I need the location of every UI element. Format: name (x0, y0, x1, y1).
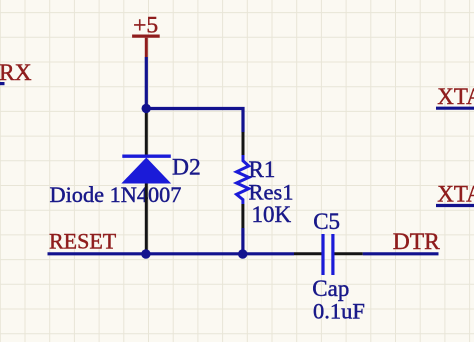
junction node B (diode/RESET) (141, 249, 150, 258)
svg-text:0.1uF: 0.1uF (313, 298, 365, 323)
svg-text:RESET: RESET (49, 228, 117, 253)
svg-text:D2: D2 (172, 154, 201, 180)
junction node C (R1/RESET) (238, 249, 247, 258)
junction node A (+5/XTAL wire tee) (142, 104, 151, 113)
power +5 (132, 12, 160, 57)
svg-text:RX: RX (0, 60, 32, 86)
wire XTAL1 (436, 107, 474, 110)
svg-text:C5: C5 (313, 209, 340, 234)
svg-text:Cap: Cap (312, 276, 349, 301)
wire C5 to DTR (363, 252, 439, 255)
wire RX stub (0, 82, 5, 85)
wire R1 to junction B (241, 228, 244, 254)
capacitor C5 left pin (294, 252, 322, 255)
wire RESET (48, 252, 295, 255)
wire junction A to R1 top (146, 109, 243, 133)
resistor R1 bottom pin (241, 204, 244, 228)
svg-text:DTR: DTR (393, 229, 440, 255)
svg-text:10K: 10K (252, 202, 292, 227)
svg-text:XTAL1: XTAL1 (437, 84, 474, 109)
wire +5 to junction A (145, 57, 148, 108)
svg-text:R1: R1 (249, 157, 276, 182)
resistor R1 top pin (242, 132, 245, 156)
diode D2 symbol (122, 156, 171, 183)
svg-text:+5: +5 (133, 12, 158, 38)
capacitor C5 plates (323, 234, 333, 275)
svg-text:XTAL2: XTAL2 (437, 182, 474, 207)
svg-text:Res1: Res1 (249, 180, 294, 205)
diode D2 cathode pin (top) (145, 108, 148, 155)
diode D2 anode pin (bottom) (145, 183, 148, 254)
wire XTAL2 (436, 204, 474, 207)
resistor R1 body (zigzag) (237, 155, 249, 204)
capacitor C5 right pin (334, 252, 362, 255)
svg-text:Diode 1N4007: Diode 1N4007 (50, 182, 182, 207)
